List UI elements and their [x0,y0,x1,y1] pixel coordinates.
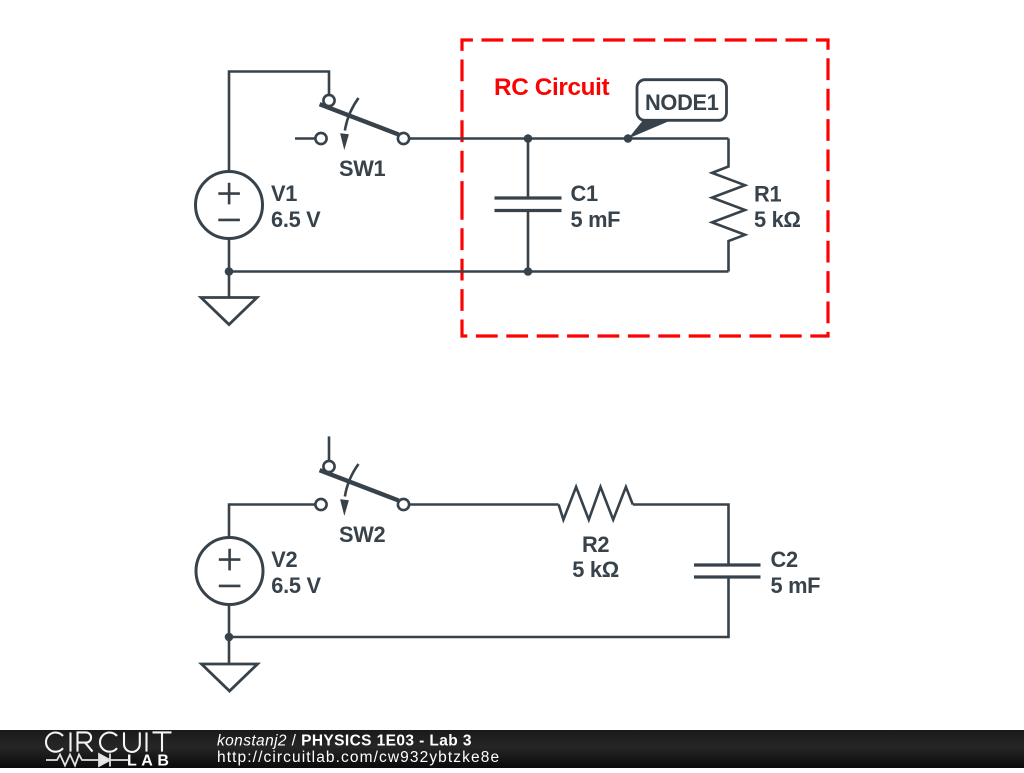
node NODE1 flag [628,80,726,139]
svg-text:SW1: SW1 [339,156,386,181]
ground bottom circuit [202,664,258,691]
svg-text:5 mF: 5 mF [771,573,821,598]
wire ground lead bottom circuit [228,637,231,664]
voltage source V2 [196,538,263,605]
svg-text:LAB: LAB [127,753,173,769]
svg-text:SW2: SW2 [339,522,386,547]
svg-text:NODE1: NODE1 [645,90,719,115]
wire bottom rail bottom circuit [229,577,729,637]
switch SW2 [315,461,409,516]
svg-text:konstanj2 / PHYSICS 1E03 - Lab: konstanj2 / PHYSICS 1E03 - Lab 3 [217,733,472,750]
node dot C1 top [524,134,533,143]
svg-text:5 kΩ: 5 kΩ [572,557,619,582]
svg-text:http://circuitlab.com/cw932ybt: http://circuitlab.com/cw932ybtzke8e [217,749,500,766]
logo resistor-diode glyph [46,754,128,767]
wire V1 bottom lead [228,239,231,272]
wire R2 to C2 [633,505,729,566]
logo CIRCUIT wordmark [46,732,172,752]
svg-text:R2: R2 [582,532,609,557]
wire bottom rail top circuit [229,270,729,273]
wire SW1 to node rail [409,137,729,140]
resistor R2 [559,487,633,520]
node NODE1 dot [624,134,633,143]
svg-text:5 mF: 5 mF [571,207,621,232]
svg-text:5 kΩ: 5 kΩ [754,207,801,232]
svg-text:6.5 V: 6.5 V [271,573,321,598]
svg-text:C2: C2 [771,547,798,572]
node dot C1 bottom [524,267,533,276]
wire V1 top to SW1 [229,72,329,172]
footer bar [0,730,1024,768]
resistor R1 [712,139,745,272]
svg-text:V2: V2 [271,547,297,572]
wire V2 top lead [229,505,316,538]
capacitor C1 [495,139,562,272]
svg-text:6.5 V: 6.5 V [271,207,321,232]
wire SW2 to R2 [409,503,559,506]
wire SW2 top stub [328,436,331,461]
svg-text:V1: V1 [271,181,297,206]
svg-text:R1: R1 [754,182,781,207]
svg-text:RC Circuit: RC Circuit [494,74,610,101]
node dot V2 bottom [225,633,234,642]
switch SW1 [315,95,409,150]
voltage source V1 [196,172,263,239]
red dashed boundary box [462,40,828,336]
wire ground lead top circuit [228,272,231,298]
svg-text:C1: C1 [571,181,598,206]
wire V2 bottom lead [228,605,231,638]
node dot V1 bottom [225,267,234,276]
capacitor C2 [694,565,761,577]
wire SW1 left stub [295,137,316,140]
ground top circuit [201,298,257,325]
